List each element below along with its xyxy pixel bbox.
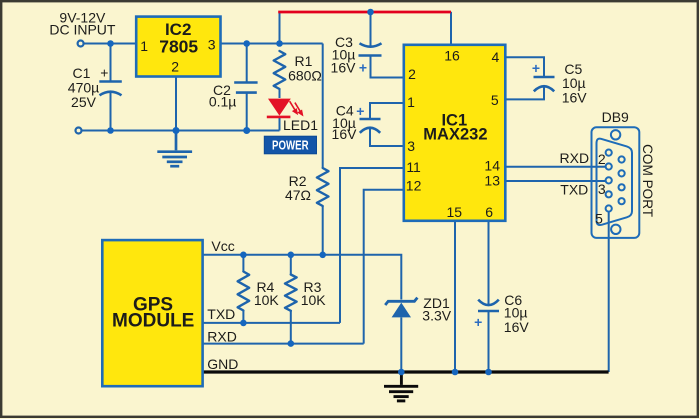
capacitor C3 plates bbox=[360, 43, 382, 46]
node R4 top on Vcc bbox=[240, 252, 247, 259]
svg-text:+: + bbox=[356, 103, 364, 119]
svg-text:10K: 10K bbox=[301, 292, 327, 308]
svg-text:1: 1 bbox=[407, 94, 415, 110]
ground (IC2 earth) bbox=[157, 131, 192, 167]
svg-text:COM PORT: COM PORT bbox=[640, 144, 655, 217]
svg-text:16V: 16V bbox=[562, 89, 588, 105]
node R4 bottom on TXD bbox=[240, 320, 247, 327]
node C1 top bbox=[107, 40, 114, 47]
resistor R3 bbox=[285, 275, 297, 311]
wire RXD rail bbox=[202, 343, 364, 345]
node C6 on GND bbox=[485, 369, 492, 376]
capacitor C5 plates bbox=[534, 76, 555, 79]
svg-text:14: 14 bbox=[484, 158, 500, 174]
wire GND black rail bbox=[202, 370, 609, 373]
node IC2 pin2 / ground bbox=[173, 127, 180, 134]
terminal DC input - bbox=[76, 128, 82, 134]
svg-text:5: 5 bbox=[595, 210, 603, 226]
svg-text:15: 15 bbox=[447, 204, 463, 220]
svg-text:13: 13 bbox=[484, 173, 500, 189]
terminal DC input + bbox=[78, 41, 84, 47]
wire R2 bottom stem bbox=[322, 206, 324, 255]
svg-text:1: 1 bbox=[140, 38, 148, 54]
wire LED1 cathode down bbox=[279, 117, 281, 131]
svg-text:3.3V: 3.3V bbox=[422, 307, 451, 323]
wire R3 stems bbox=[290, 255, 292, 344]
svg-text:+: + bbox=[359, 59, 367, 75]
wire R4 stems bbox=[242, 255, 244, 323]
wire pin 14 RXD to DB9 pin 2 bbox=[505, 166, 606, 168]
svg-text:3: 3 bbox=[598, 181, 606, 197]
svg-text:7805: 7805 bbox=[159, 37, 198, 57]
connector DB9 bbox=[592, 127, 640, 238]
wire R1 to LED1 bbox=[279, 89, 281, 98]
node R1 top bbox=[276, 40, 283, 47]
wire ZD1 anode to ground rail bbox=[400, 318, 402, 373]
node R3 bottom on RXD bbox=[288, 340, 295, 347]
svg-text:LED1: LED1 bbox=[283, 117, 318, 133]
svg-text:10K: 10K bbox=[254, 292, 280, 308]
resistor R4 bbox=[238, 272, 250, 311]
wire pin 1 to C4 bbox=[370, 103, 405, 119]
svg-text:+: + bbox=[100, 65, 108, 81]
node C1 bottom bbox=[107, 127, 114, 134]
capacitor C4 plates bbox=[360, 118, 381, 121]
svg-text:47Ω: 47Ω bbox=[285, 187, 311, 203]
wire R1 top to red bus bbox=[279, 12, 281, 44]
LED1 bbox=[267, 99, 303, 117]
wire red bus to pin 16 bbox=[450, 12, 452, 45]
svg-text:16V: 16V bbox=[331, 59, 357, 75]
node R2 bottom on Vcc bbox=[319, 252, 326, 259]
wire C2 top stem bbox=[246, 44, 248, 83]
wire C3 stem from red bus bbox=[370, 12, 372, 46]
ground (bottom earth, black) bbox=[384, 373, 418, 401]
svg-text:+: + bbox=[532, 60, 540, 76]
regulator IC2 box bbox=[136, 17, 220, 77]
wire DB9 pin 5 to ground rail bbox=[608, 212, 610, 372]
wire C3 bottom to pin 2 bbox=[371, 56, 405, 78]
wire bottom return rail bbox=[82, 130, 280, 132]
svg-text:11: 11 bbox=[406, 159, 421, 175]
wire pin 6 to C6 bbox=[488, 221, 490, 304]
POWER badge bbox=[264, 136, 316, 154]
GPS MODULE box bbox=[102, 240, 202, 386]
wire C5 to pin 5 bbox=[505, 87, 544, 100]
svg-text:RXD: RXD bbox=[207, 328, 237, 344]
svg-text:16: 16 bbox=[444, 47, 460, 63]
wire pin 13 TXD to DB9 pin 3 bbox=[505, 180, 606, 182]
wire IC2 pin3 +5V rail bbox=[221, 43, 323, 45]
zener ZD1 bbox=[385, 298, 417, 318]
resistor R2 bbox=[317, 168, 329, 206]
svg-text:GND: GND bbox=[207, 356, 238, 372]
svg-text:2: 2 bbox=[171, 58, 179, 74]
svg-text:MAX232: MAX232 bbox=[423, 126, 487, 144]
node red bus / C3 bbox=[367, 9, 374, 16]
wire red +V bus bbox=[278, 11, 451, 14]
capacitor C2 plates bbox=[234, 83, 257, 93]
wire C6 to ground rail bbox=[488, 311, 490, 372]
svg-text:DB9: DB9 bbox=[602, 109, 629, 125]
svg-text:3: 3 bbox=[407, 138, 415, 154]
wire C2 bottom stem bbox=[246, 93, 248, 131]
wire pin 11 to TXD bbox=[340, 168, 405, 323]
svg-text:680Ω: 680Ω bbox=[288, 68, 322, 84]
capacitor C1 plates bbox=[99, 80, 122, 83]
wire C4 to pin 3 bbox=[370, 128, 405, 147]
wire TXD rail bbox=[202, 322, 340, 324]
svg-text:DC INPUT: DC INPUT bbox=[49, 21, 116, 37]
svg-text:16V: 16V bbox=[332, 126, 358, 142]
wire Vcc rail bbox=[202, 255, 401, 300]
node pin15 on GND bbox=[452, 369, 459, 376]
wire pin 4 to C5 bbox=[505, 57, 544, 76]
node C2 top bbox=[243, 40, 250, 47]
IC op-amp/driver IC1 MAX232 box bbox=[404, 45, 506, 221]
svg-text:16V: 16V bbox=[504, 319, 530, 335]
node R3 top on Vcc bbox=[288, 252, 295, 259]
svg-text:2: 2 bbox=[598, 151, 606, 167]
svg-text:5: 5 bbox=[491, 92, 499, 108]
wire C1 top stem bbox=[110, 44, 112, 82]
svg-text:TXD: TXD bbox=[207, 306, 235, 322]
svg-text:25V: 25V bbox=[71, 94, 97, 110]
wire pin 12 to RXD bbox=[364, 190, 405, 344]
svg-text:Vcc: Vcc bbox=[211, 238, 234, 254]
wire input top rail bbox=[84, 43, 137, 45]
svg-text:TXD: TXD bbox=[560, 181, 588, 197]
svg-text:RXD: RXD bbox=[560, 150, 590, 166]
wire pin 15 to ground rail bbox=[454, 221, 456, 372]
svg-text:+: + bbox=[474, 314, 482, 330]
svg-text:0.1µ: 0.1µ bbox=[209, 94, 237, 110]
svg-text:4: 4 bbox=[492, 49, 500, 65]
svg-text:2: 2 bbox=[408, 66, 416, 82]
node ZD1 on GND bbox=[398, 369, 405, 376]
capacitor C6 plates bbox=[478, 300, 499, 306]
svg-text:MODULE: MODULE bbox=[112, 311, 194, 332]
node C2 bottom bbox=[243, 127, 250, 134]
svg-text:3: 3 bbox=[208, 36, 216, 52]
svg-text:POWER: POWER bbox=[272, 139, 309, 153]
svg-text:12: 12 bbox=[406, 178, 422, 194]
resistor R1 bbox=[274, 51, 286, 89]
svg-text:6: 6 bbox=[485, 204, 493, 220]
wire IC2 pin2 stem bbox=[175, 78, 177, 131]
wire C1 bottom stem bbox=[110, 92, 112, 131]
wire R2 top stem bbox=[322, 44, 324, 169]
